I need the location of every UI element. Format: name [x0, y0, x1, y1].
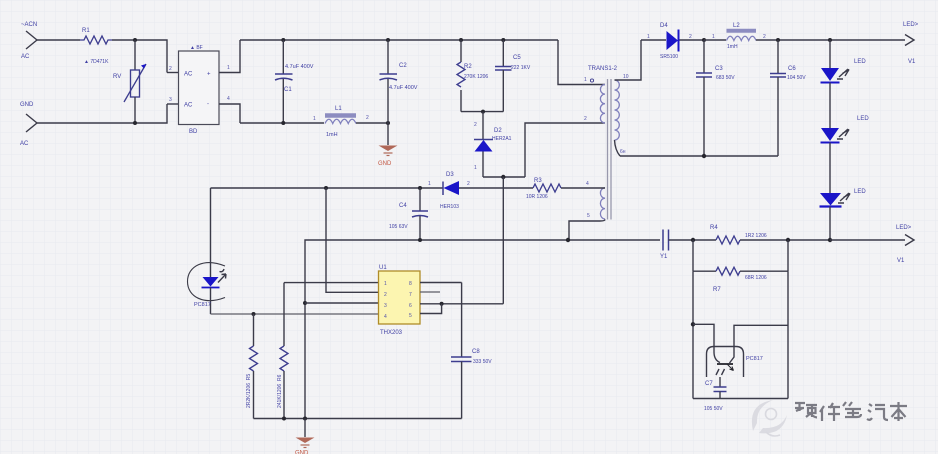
wire secondary pin6 drop [615, 140, 621, 156]
wire sense line [669, 239, 717, 241]
wire snubber bottom [461, 111, 503, 113]
svg-text:3: 3 [169, 97, 172, 103]
connector GND input [20, 102, 37, 147]
capacitor C4 [389, 188, 428, 240]
wire to LED- connector [830, 239, 905, 241]
wire sense left drop [692, 271, 694, 398]
junction C2 top [386, 38, 390, 42]
diode D2 [474, 112, 512, 177]
capacitor C1 [275, 40, 314, 123]
svg-text:LED: LED [854, 59, 866, 65]
svg-text:3: 3 [384, 303, 387, 309]
svg-text:R4: R4 [710, 225, 718, 231]
svg-text:4.7uF 400V: 4.7uF 400V [389, 85, 418, 91]
wire U1 pin6 [420, 303, 503, 305]
resistor R3 [526, 178, 605, 200]
wire secondary bus start [641, 39, 666, 41]
junction C4 bottom [418, 238, 422, 242]
svg-text:R1: R1 [82, 28, 90, 34]
svg-text:▲ 7D471K: ▲ 7D471K [84, 59, 109, 65]
svg-text:222 1KV: 222 1KV [511, 65, 531, 71]
resistor R7 [693, 240, 788, 293]
svg-text:TRANS1-2: TRANS1-2 [588, 66, 618, 72]
junction C5 top [501, 38, 505, 42]
svg-text:GND: GND [20, 102, 34, 108]
svg-text:C4: C4 [399, 203, 407, 209]
svg-text:HER2A1: HER2A1 [492, 136, 512, 142]
svg-text:L1: L1 [335, 106, 342, 112]
junction varistor bottom [133, 121, 137, 125]
junction opto B left [691, 322, 695, 326]
diode D3 [428, 172, 533, 210]
svg-text:105 50V: 105 50V [704, 406, 723, 412]
svg-text:1R2 1206: 1R2 1206 [745, 233, 767, 239]
wire switch riser to U1 [502, 177, 504, 304]
svg-text:8: 8 [409, 281, 412, 287]
svg-text:333 50V: 333 50V [473, 359, 492, 365]
svg-text:5: 5 [409, 313, 412, 319]
connector LED+ [903, 22, 919, 65]
svg-text:R7: R7 [713, 287, 721, 293]
junction C2 bottom / GND node [386, 121, 390, 125]
junction R2 top [459, 38, 463, 42]
resistor R1 [80, 28, 112, 44]
svg-text:PC817: PC817 [746, 356, 763, 362]
resistor R6 [277, 283, 288, 419]
svg-text:241K/1206 R6: 241K/1206 R6 [277, 374, 283, 408]
junction sense A [691, 238, 695, 242]
svg-text:LED>: LED> [896, 225, 912, 231]
wire aux pin5 drop [569, 220, 605, 241]
svg-text:2: 2 [474, 122, 477, 128]
svg-text:LED: LED [857, 116, 869, 122]
svg-text:6н: 6н [620, 149, 626, 155]
wire secondary pin10 riser [615, 40, 642, 80]
svg-text:10R 1206: 10R 1206 [526, 194, 548, 200]
wire aux rectifier line y188 [211, 187, 444, 189]
junction D2 top [481, 110, 485, 114]
wire U1 pin2 riser [326, 188, 379, 292]
svg-text:L2: L2 [733, 23, 740, 29]
wire L2 to LED+ [756, 39, 905, 41]
connector ~ACN [21, 22, 37, 60]
svg-text:U1: U1 [379, 265, 387, 271]
svg-text:D2: D2 [494, 128, 502, 134]
junction LED return [828, 238, 832, 242]
wire primary ground rail [254, 418, 462, 420]
ground GND1 [188, 22, 919, 454]
wire U1 pin8 [420, 282, 462, 284]
svg-text:2R2K/1206 R5: 2R2K/1206 R5 [246, 374, 252, 408]
junction pin2 riser top [324, 186, 328, 190]
svg-text:683 50V: 683 50V [716, 75, 735, 81]
junction pin5-pin6 tie [440, 302, 444, 306]
watermark [752, 400, 907, 436]
junction LED string top [828, 38, 832, 42]
bridge rectifier BD [167, 45, 230, 135]
svg-text:C7: C7 [705, 381, 713, 387]
svg-text:105 63V: 105 63V [389, 224, 408, 230]
svg-text:-: - [207, 102, 209, 108]
svg-text:C8: C8 [472, 349, 480, 355]
svg-text:2: 2 [384, 292, 387, 298]
wire U1 pin5 loop [420, 304, 442, 314]
transformer TRANS1-2 [584, 66, 629, 220]
svg-text:7: 7 [409, 292, 412, 298]
svg-text:2: 2 [467, 181, 470, 187]
wire U1 pin1 [284, 282, 379, 284]
svg-text:1mH: 1mH [727, 44, 738, 50]
svg-text:C6: C6 [788, 66, 796, 72]
junction U1 pin3 [303, 301, 307, 305]
wire opto ground rail [693, 398, 788, 400]
svg-text:6: 6 [409, 303, 412, 309]
svg-text:1: 1 [647, 34, 650, 40]
svg-text:1: 1 [712, 34, 715, 40]
svg-text:AC: AC [184, 72, 193, 78]
svg-text:R2: R2 [464, 64, 472, 70]
junction C3 bottom [702, 154, 706, 158]
svg-text:5: 5 [587, 213, 590, 219]
svg-text:2: 2 [763, 34, 766, 40]
wire U1 pin3 [305, 302, 379, 304]
resistor R5 [246, 314, 258, 419]
capacitor C2 [380, 40, 418, 123]
svg-text:1: 1 [384, 281, 387, 287]
svg-text:PC817: PC817 [194, 302, 211, 308]
wire bridge + output [219, 40, 240, 73]
svg-text:LED>: LED> [903, 22, 919, 28]
wire L1 to C2 [356, 122, 388, 124]
svg-text:1: 1 [313, 116, 316, 122]
LED LED2 [821, 83, 870, 143]
svg-text:4.7uF 400V: 4.7uF 400V [285, 64, 314, 70]
svg-text:2: 2 [689, 34, 692, 40]
svg-text:104 50V: 104 50V [787, 75, 806, 81]
capacitor Y1 [660, 230, 669, 261]
svg-text:LED: LED [854, 189, 866, 195]
wire sense right drop [787, 271, 789, 398]
svg-text:2: 2 [169, 66, 172, 72]
capacitor C3 [696, 40, 735, 156]
wire DC- [240, 122, 324, 124]
svg-text:GND: GND [295, 451, 309, 454]
svg-text:1: 1 [584, 77, 587, 83]
svg-text:1: 1 [428, 181, 431, 187]
svg-text:4: 4 [384, 314, 387, 320]
wire live input [37, 39, 80, 41]
ground GND2 [295, 419, 315, 454]
wire transformer pin2 [525, 123, 605, 177]
svg-text:1: 1 [227, 65, 230, 71]
capacitor C5 [495, 40, 531, 112]
IC U1 THX203 [379, 265, 421, 336]
svg-text:RV: RV [113, 74, 121, 80]
svg-text:BD: BD [189, 129, 198, 135]
svg-text:V1: V1 [908, 59, 916, 65]
svg-text:AC: AC [184, 103, 193, 109]
svg-text:V1: V1 [897, 258, 905, 264]
capacitor C7 [704, 377, 727, 412]
svg-text:D3: D3 [446, 172, 454, 178]
wire DC+ bus [240, 39, 558, 41]
svg-text:AC: AC [20, 141, 29, 147]
LED LED1 [821, 40, 867, 83]
svg-text:SR5100: SR5100 [660, 54, 678, 60]
svg-text:C3: C3 [715, 66, 723, 72]
svg-text:68R 1206: 68R 1206 [745, 275, 767, 281]
junction varistor top [133, 38, 137, 42]
svg-text:C1: C1 [284, 87, 292, 93]
wire to L2 [704, 39, 726, 41]
svg-text:2: 2 [366, 115, 369, 121]
wire clamp node y177 [483, 176, 525, 178]
svg-text:270K 1206: 270K 1206 [464, 74, 488, 80]
junction C1 bottom [281, 121, 285, 125]
svg-text:Y1: Y1 [660, 254, 668, 260]
junction ground stem [303, 417, 307, 421]
wire main mid line left end / pin3 riser [305, 240, 660, 419]
diode D4 [647, 23, 704, 60]
junction aux return [566, 238, 570, 242]
svg-text:THX203: THX203 [380, 330, 403, 336]
svg-text:R3: R3 [534, 178, 542, 184]
svg-text:GND: GND [378, 161, 392, 167]
svg-text:10: 10 [623, 74, 629, 80]
svg-text:2: 2 [584, 116, 587, 122]
varistor RV [84, 40, 146, 123]
svg-text:▲ BF: ▲ BF [190, 45, 203, 51]
junction R6 bottom [282, 417, 286, 421]
junction C4 top [418, 186, 422, 190]
wire neutral input [37, 104, 167, 123]
wire bridge - output [219, 104, 240, 123]
svg-text:C5: C5 [513, 55, 521, 61]
resistor R4 [710, 225, 830, 244]
junction R5 top [252, 312, 256, 316]
capacitor C6 [770, 40, 806, 156]
svg-text:D4: D4 [660, 23, 668, 29]
svg-text:C2: C2 [399, 63, 407, 69]
resistor R2 [457, 40, 488, 112]
svg-text:4: 4 [227, 96, 230, 102]
wire U1 pin7 stub [420, 291, 440, 293]
wire live to bridge [112, 40, 167, 73]
wire secondary return rail [620, 155, 778, 157]
opto-coupler PC817 LED side [188, 188, 227, 314]
svg-text:~ACN: ~ACN [21, 22, 37, 28]
wire bus to xfmr pin1 [558, 40, 605, 85]
capacitor C8 [451, 283, 492, 419]
svg-text:AC: AC [21, 54, 30, 60]
junction C3 top [702, 38, 706, 42]
connector LED- [896, 225, 914, 264]
inductor L1 [313, 106, 369, 138]
svg-text:1: 1 [474, 165, 477, 171]
wire feedback line to U1 pin4 [211, 313, 379, 315]
junction C6 top [776, 38, 780, 42]
inductor L2 [712, 23, 766, 50]
LED LED3 [820, 143, 867, 207]
svg-text:1mH: 1mH [326, 132, 338, 138]
svg-text:HER103: HER103 [440, 204, 459, 210]
wire LED string bottom [829, 207, 831, 241]
junction switch node [501, 175, 505, 179]
svg-text:4: 4 [586, 181, 589, 187]
opto-coupler PC817 transistor side [693, 324, 788, 377]
svg-text:+: + [207, 72, 211, 78]
junction C1 top [281, 38, 285, 42]
junction sense B [786, 238, 790, 242]
